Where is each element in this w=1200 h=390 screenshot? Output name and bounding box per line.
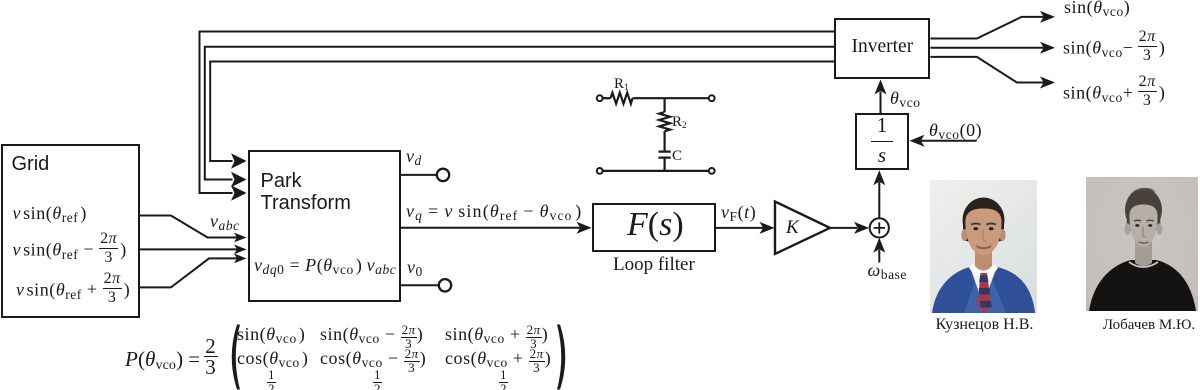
arrowhead phase c <box>234 254 247 264</box>
wire grid phase c <box>140 258 238 287</box>
mouth <box>1138 242 1148 243</box>
wire feedback a (outer): inverter left to park bottom-left arrow <box>200 32 835 194</box>
block Grid <box>1 144 140 318</box>
resistor R1 <box>611 93 633 104</box>
black tee <box>1089 260 1196 311</box>
label sin(theta_vco - 2pi/3) <box>1063 30 1165 63</box>
wire inverter output c <box>930 57 1043 83</box>
arrowhead omega-base <box>873 238 885 253</box>
arrowhead into summer <box>854 222 869 234</box>
arrowhead into integrator <box>873 170 885 185</box>
wire K to summer <box>830 227 857 229</box>
wire R1 to terminal top-right <box>633 97 709 99</box>
label v sin(theta_ref) <box>13 203 87 224</box>
label C <box>672 148 682 165</box>
wire feedback c (inner) <box>210 62 834 162</box>
label theta_vco(0) <box>929 120 982 141</box>
label v_dq0 equation <box>254 255 396 276</box>
capacitor C <box>659 152 671 158</box>
wire inverter output a <box>930 17 1043 39</box>
block Park Transform <box>248 150 401 302</box>
wire v0 output <box>401 284 439 286</box>
label Park Transform <box>261 170 351 215</box>
label v_q equation <box>406 201 582 222</box>
node v0 terminal <box>439 279 451 291</box>
neck <box>975 250 992 271</box>
matrix row sin <box>237 324 305 345</box>
label Kuznetsov N.V. <box>931 316 1038 334</box>
matrix big parens <box>226 324 571 390</box>
label v sin(theta_ref + 2pi/3) <box>16 272 130 305</box>
ears <box>1124 223 1130 235</box>
label omega_base <box>868 260 907 281</box>
label v_abc <box>210 211 240 232</box>
summer circle <box>870 218 889 237</box>
shirt <box>970 263 997 304</box>
face <box>1129 205 1157 248</box>
nose <box>1143 227 1146 237</box>
wire grid phase a <box>140 216 238 238</box>
hair <box>1125 188 1162 232</box>
label sin(theta_vco + 2pi/3) <box>1063 75 1165 108</box>
ears <box>961 229 967 241</box>
hair <box>963 198 1005 243</box>
face <box>965 209 1001 256</box>
wire grid phase b <box>140 248 238 250</box>
wire bottom rail <box>603 170 709 172</box>
tie <box>978 273 992 313</box>
arrowhead into Park (top feedback) <box>231 153 247 169</box>
resistor R2 <box>659 112 670 131</box>
label P matrix equation <box>125 347 200 372</box>
label Grid <box>12 153 50 176</box>
terminal bottom-right <box>709 168 715 174</box>
label coefficient 2/3 <box>204 338 218 376</box>
block F(s) <box>592 203 716 253</box>
node vd terminal <box>437 169 449 181</box>
label K <box>786 217 799 239</box>
arrowhead into Park (bottom feedback) <box>231 185 247 201</box>
eyebrows <box>971 224 981 225</box>
wire inverter output b <box>930 47 1043 49</box>
wire integrator to inverter <box>880 92 882 114</box>
label Inverter <box>852 36 914 58</box>
label 1/s <box>871 114 893 166</box>
block integrator 1/s <box>855 113 909 170</box>
label theta_vco <box>890 88 921 109</box>
nose <box>983 230 986 241</box>
arrowhead into K <box>760 222 775 234</box>
wire capacitor to bottom rail <box>663 158 665 171</box>
arrowhead into inverter <box>875 80 887 95</box>
wire omega-base into summer <box>878 250 880 263</box>
wire R2 to capacitor <box>663 131 665 151</box>
label R2 <box>672 114 687 131</box>
arrowhead into F(s) <box>577 222 592 234</box>
terminal bottom-left <box>597 168 603 174</box>
chin shade <box>977 255 990 257</box>
suit shoulders <box>932 267 1035 313</box>
wire junction down to R2 <box>663 98 665 112</box>
label Loop filter <box>613 254 695 276</box>
loop filter schematic: terminal top-left <box>597 95 603 101</box>
label v_F(t) <box>721 202 756 223</box>
label v sin(theta_ref - 2pi/3) <box>13 232 127 265</box>
wire F(s) to K <box>716 227 763 229</box>
amplifier K triangle <box>775 202 830 254</box>
label Lobachev M.Yu. <box>1093 317 1200 334</box>
wire terminal to R1 <box>603 97 611 99</box>
terminal top-right <box>709 95 715 101</box>
wire theta-vco(0) into integrator <box>921 140 977 142</box>
arrowhead phase a <box>234 233 247 243</box>
arrowhead theta-vco(0) <box>910 135 925 147</box>
wire vq output to F(s) <box>401 227 580 229</box>
wire feedback b (middle) <box>205 47 834 180</box>
wire vd output <box>401 174 437 176</box>
arrowhead output a <box>1040 11 1055 23</box>
wire summer to integrator <box>878 182 880 218</box>
mouth <box>977 246 992 248</box>
eyebrows <box>1134 219 1141 222</box>
photo Lobachev M.Yu. <box>1086 177 1198 311</box>
label sin(theta_vco) <box>1064 0 1130 18</box>
arrowhead phase b <box>234 245 247 255</box>
arrowhead into Park (middle feedback) <box>231 172 247 188</box>
arrowhead output c <box>1040 77 1055 89</box>
eyes <box>973 227 978 230</box>
eyes <box>1135 224 1139 227</box>
matrix row cos <box>237 348 308 369</box>
block Inverter <box>834 18 930 80</box>
label v_d <box>406 146 422 167</box>
arrowhead output b <box>1040 42 1055 54</box>
label R1 <box>614 76 629 93</box>
summer plus sign <box>874 222 885 233</box>
label v_0 <box>407 257 423 278</box>
matrix row 1/2 <box>267 369 276 390</box>
collar <box>969 264 984 279</box>
collar line <box>1129 262 1158 267</box>
label F(s) <box>627 206 684 244</box>
photo Kuznetsov N.V. <box>930 180 1037 313</box>
neck <box>1135 241 1152 266</box>
